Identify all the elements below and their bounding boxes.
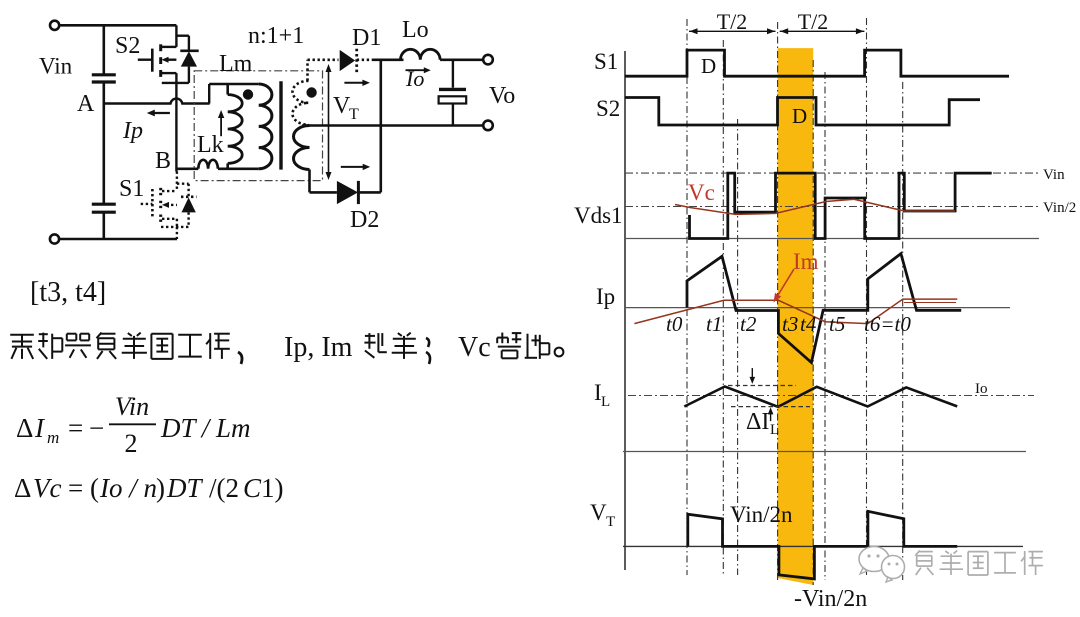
svg-text:Ip: Ip: [596, 284, 615, 309]
waveform IL: [684, 387, 957, 407]
svg-text:T: T: [606, 514, 615, 530]
svg-text:=: =: [68, 473, 83, 503]
label Vin: [39, 54, 73, 79]
svg-text:D1: D1: [352, 25, 381, 51]
svg-text:T/2: T/2: [717, 9, 748, 34]
label D on S1 pulse: [701, 54, 716, 78]
svg-text:Vc: Vc: [33, 473, 61, 503]
wire D1 cathode to output node: [374, 58, 404, 61]
label Vc (red): [688, 180, 715, 205]
svg-text:Vin: Vin: [1043, 167, 1065, 183]
time labels t0..t6: [666, 312, 683, 336]
grid line t7 (next t1): [902, 82, 904, 580]
wire B to Lk: [176, 168, 198, 171]
svg-text:Vin: Vin: [39, 54, 73, 79]
label Vin/2n: [730, 502, 793, 527]
label IL (waveform): [594, 380, 610, 410]
secondary polarity dot: [306, 87, 316, 97]
node B label: [155, 148, 171, 174]
svg-text:Lo: Lo: [402, 17, 429, 43]
svg-text:S2: S2: [115, 33, 140, 59]
input terminal bottom-left: [50, 234, 59, 243]
capacitor C1 (upper divider cap): [92, 75, 116, 82]
output terminal bottom: [483, 121, 493, 131]
svg-text:D2: D2: [350, 207, 379, 233]
svg-text:T: T: [349, 106, 359, 123]
svg-text:B: B: [155, 148, 171, 174]
svg-text:t3: t3: [782, 312, 798, 336]
label Vin/2 (reference): [1043, 200, 1076, 216]
svg-text:L: L: [601, 394, 610, 410]
waveform S2: [625, 98, 980, 126]
svg-text:Im: Im: [793, 249, 819, 274]
formula delta Im: [16, 392, 251, 458]
V_T measurement arrow: [326, 64, 332, 180]
grid line t6: [866, 18, 868, 575]
svg-text:L: L: [770, 422, 779, 438]
label Vo: [489, 83, 515, 109]
transformer primary winding: [259, 84, 272, 169]
Vin/2 reference dash-dot line: [625, 206, 1040, 208]
output bottom rail (center tap): [302, 124, 483, 127]
waveform Ip: [687, 254, 961, 363]
label D on S2 pulse: [792, 104, 807, 128]
diode D2: [337, 181, 381, 204]
label D2: [350, 207, 379, 233]
grid line t4 (band right): [812, 60, 814, 585]
Io vector arrow and label: [405, 66, 431, 91]
waveform Vds1: [690, 173, 992, 238]
svg-text:S1: S1: [594, 49, 618, 74]
T/2 dimension arrows: [689, 28, 864, 34]
svg-text:−: −: [89, 413, 104, 443]
svg-text:m: m: [47, 428, 59, 447]
label Io (reference): [975, 381, 988, 397]
svg-text:Vc: Vc: [688, 180, 715, 205]
inductor Lm (magnetizing, parallel winding): [228, 84, 243, 169]
primary polarity dot: [243, 89, 253, 99]
svg-text:): ): [156, 473, 165, 503]
label S2: [115, 33, 140, 59]
interval label [t3, t4]: [30, 277, 106, 308]
VT zero baseline: [623, 545, 1023, 547]
svg-text:Io: Io: [405, 66, 424, 91]
wire left branch vertical: [103, 25, 106, 239]
rectifier vertical (D1/D2 cathodes to Lo): [379, 60, 382, 193]
svg-text:1): 1): [261, 473, 284, 503]
wire secondary bottom to D2: [310, 170, 337, 193]
section divider line: [623, 451, 1026, 453]
wire secondary top to D1 (dotted): [308, 60, 339, 81]
label Ip (waveform): [596, 284, 615, 309]
svg-text:t4: t4: [800, 312, 817, 336]
Chinese sentence: converter works in negative half cycle, Ip Im decrease, Vc increases: [10, 332, 563, 364]
svg-text:Ip, Im: Ip, Im: [284, 332, 353, 363]
output terminal top: [483, 55, 493, 65]
node A label: [77, 91, 95, 117]
watermark logo (speech bubbles): [859, 547, 905, 583]
waveform VT: [688, 511, 957, 579]
arrow current through D1: [344, 80, 370, 86]
svg-text:S2: S2: [596, 96, 620, 121]
svg-text:Io / n: Io / n: [99, 473, 157, 503]
Ip zero baseline: [625, 307, 1010, 309]
grid line t0: [686, 19, 688, 575]
svg-text:D: D: [792, 104, 807, 128]
Im curve (red): [634, 299, 957, 324]
waveform S1: [625, 50, 1009, 76]
svg-text:Lk: Lk: [197, 132, 224, 158]
label -Vin/2n: [794, 586, 867, 612]
highlighted interval band t3-t4: [778, 48, 814, 585]
svg-text:Vin/2: Vin/2: [1043, 200, 1076, 216]
body diode of S1 (dotted): [161, 184, 197, 239]
svg-text:/(2: /(2: [209, 473, 239, 503]
formula delta Vc: [14, 473, 284, 503]
svg-text:Vc: Vc: [458, 332, 491, 363]
transformer dash-dot boundary box: [194, 71, 322, 181]
wire top rail: [60, 24, 177, 27]
label Vds1: [574, 203, 623, 228]
svg-text:[t3, t4]: [t3, t4]: [30, 277, 106, 308]
capacitor C2 (lower divider cap): [92, 204, 116, 212]
inductor Lk (leakage): [198, 160, 218, 169]
Vin reference dash-dot line: [625, 172, 1040, 174]
label Lo: [402, 17, 429, 43]
svg-text:Io: Io: [975, 381, 988, 397]
label S2 (waveform): [596, 96, 620, 121]
IL ripple dashed guide lines: [728, 386, 810, 407]
label T/2 right: [798, 9, 829, 34]
grid line t2: [737, 119, 739, 575]
svg-text:t0: t0: [666, 312, 683, 336]
svg-text:ΔI: ΔI: [746, 409, 769, 435]
Vc curve (red): [675, 199, 955, 214]
timing axis vertical: [624, 51, 626, 570]
svg-text:S1: S1: [119, 176, 144, 202]
svg-text:Δ: Δ: [16, 413, 33, 443]
svg-text:D: D: [701, 54, 716, 78]
ripple arrows: [750, 368, 774, 421]
svg-text:Vin: Vin: [115, 392, 149, 421]
label S1 (waveform): [594, 49, 618, 74]
svg-text:DT / Lm: DT / Lm: [160, 413, 251, 443]
output capacitor: [439, 60, 467, 126]
svg-text:Δ: Δ: [14, 473, 31, 503]
wire bottom rail: [59, 238, 177, 241]
label V_T: [333, 93, 359, 123]
diode D1 (dotted = off): [340, 49, 374, 73]
label delta IL: [746, 409, 779, 438]
svg-text:=: =: [68, 413, 83, 443]
svg-text:V: V: [590, 500, 607, 525]
wire node A rail with crossover hump: [104, 99, 210, 104]
transistor S2 (MOSFET): [138, 25, 177, 83]
arrow current through D2: [341, 164, 370, 170]
arrow inside Lm region: [218, 110, 224, 136]
grid line t5: [824, 72, 826, 580]
label D1: [352, 25, 381, 51]
svg-text:n:1+1: n:1+1: [248, 23, 304, 49]
svg-text:t5: t5: [829, 312, 845, 336]
grid line t1: [722, 40, 724, 575]
wire A to primary top: [209, 84, 259, 104]
label n:1+1: [248, 23, 304, 49]
watermark text mianbaoban-shequ: [915, 551, 1043, 576]
label Vin (reference): [1043, 167, 1065, 183]
wire switch-node vertical (S2 source to B): [175, 83, 177, 172]
Io reference dash-dot line: [628, 395, 1034, 397]
wire Lo to output terminal: [440, 58, 483, 61]
label Lm: [219, 51, 253, 77]
body diode of S2: [162, 36, 199, 83]
Vds1 zero baseline: [625, 238, 1039, 240]
label S1: [119, 176, 144, 202]
svg-text:Vin/2n: Vin/2n: [730, 502, 793, 527]
transformer secondary lower half: [294, 126, 310, 170]
label VT (waveform): [590, 500, 615, 530]
svg-text:T/2: T/2: [798, 9, 829, 34]
svg-text:2: 2: [125, 429, 138, 458]
transistor S1 (MOSFET, dotted = off): [141, 172, 177, 227]
grid line t3 (band left): [777, 22, 779, 583]
transformer secondary upper half (dotted): [293, 81, 309, 125]
label Im (red) with arrow: [774, 249, 819, 303]
svg-text:t1: t1: [706, 312, 722, 336]
input terminal top-left: [50, 21, 59, 30]
svg-text:(: (: [90, 473, 99, 503]
transformer core: [279, 81, 282, 169]
svg-text:Vds1: Vds1: [574, 203, 623, 228]
svg-text:Vo: Vo: [489, 83, 515, 109]
svg-text:t6=t0: t6=t0: [864, 312, 911, 336]
inductor Lo: [401, 49, 441, 60]
svg-text:Ip: Ip: [122, 118, 143, 144]
svg-text:A: A: [77, 91, 95, 117]
svg-text:-Vin/2n: -Vin/2n: [794, 586, 867, 612]
svg-text:C: C: [243, 473, 262, 503]
label Ip with arrow: [122, 110, 170, 144]
svg-text:t2: t2: [740, 312, 757, 336]
label Lk: [197, 132, 224, 158]
svg-text:DT: DT: [166, 473, 203, 503]
wire Lk to primary bottom: [218, 168, 259, 171]
label T/2 left: [717, 9, 748, 34]
svg-text:Lm: Lm: [219, 51, 253, 77]
